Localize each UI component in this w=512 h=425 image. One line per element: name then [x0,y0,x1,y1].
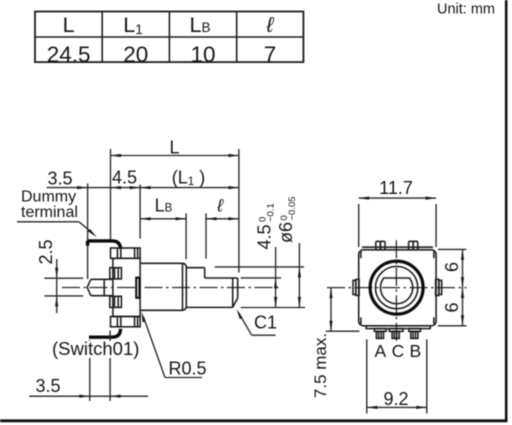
extension line dummy terminal edge [87,184,89,280]
page right border [505,0,508,422]
svg-text:LB: LB [155,196,173,216]
dimension 2.5 [44,259,83,313]
svg-text:3.5: 3.5 [35,376,60,396]
svg-text:LB: LB [190,13,211,37]
bold circle boss [370,261,423,314]
svg-text:(L1 ): (L1 ) [172,168,205,189]
svg-text:9.2: 9.2 [383,389,408,409]
dimension ell line [206,217,239,220]
body bottom terminal row [111,317,141,327]
svg-text:L: L [169,138,179,158]
dimension dia6 tol text [276,196,298,243]
svg-text:10: 10 [190,42,215,67]
right side tab [436,279,442,295]
front center line vertical [395,240,397,342]
bottom skirt [366,326,430,329]
dimension 6 6 right [438,249,467,325]
left side tab [353,279,359,295]
extension line shaft tip [238,149,240,273]
middle pin pointed [87,279,113,295]
svg-text:4.5: 4.5 [112,168,137,188]
svg-text:20: 20 [123,42,148,67]
dimension 3.5/4.5/(L1) line [47,186,239,189]
svg-text:Unit: mm: Unit: mm [437,2,495,18]
dimension 3.5 bottom [29,395,148,398]
body main outline [113,258,140,316]
svg-text:R0.5: R0.5 [169,359,207,379]
dimension 11.7 [359,197,436,248]
extension line shaft top right [215,266,304,268]
svg-text:7: 7 [264,42,277,67]
svg-text:L1: L1 [123,13,142,37]
svg-text:C: C [392,341,405,361]
switch terminal block bottom [110,296,122,307]
corner nub top-right [433,251,435,258]
dummy terminal label [17,189,97,238]
svg-text:ø6: ø6 [276,222,296,243]
bottom pin A [374,329,386,339]
front top seam [362,246,433,248]
svg-text:4.5: 4.5 [255,224,275,249]
svg-text:−0.1: −0.1 [266,203,277,222]
extension line body right [139,185,141,239]
dimension 7.5 max [326,288,360,332]
top pin left [376,241,385,250]
svg-text:7.5 max.: 7.5 max. [311,333,330,398]
svg-text:6: 6 [442,262,462,272]
top pin right [409,241,418,250]
svg-text:terminal: terminal [21,204,78,221]
shaft outline [186,268,237,308]
svg-text:11.7: 11.7 [379,178,413,198]
svg-text:C1: C1 [254,313,277,333]
corner nub bottom-right [433,317,435,324]
extension line shaft bottom right [241,307,305,309]
dummy terminal bold bracket top [87,241,120,249]
dimension 4.5 tol line [274,247,277,308]
svg-text:(Switch01): (Switch01) [52,338,139,359]
page bottom border [0,419,508,422]
shaft circle with flat [381,278,413,304]
svg-text:−0.05: −0.05 [287,196,298,220]
svg-text:L: L [63,13,75,37]
dimension dia6 tol line [298,243,301,308]
bushing circle [375,266,417,308]
extension line bushing end [185,213,187,259]
dimension L line [111,154,239,157]
extension lines bottom 3.5 [90,330,110,401]
front body outline [359,250,436,326]
bushing outline [141,263,186,310]
extension line flat start [205,213,207,258]
dimension LB line [140,217,186,220]
extension line flat right [241,277,281,279]
center line [62,287,279,289]
svg-text:2.5: 2.5 [36,239,56,264]
svg-text:24.5: 24.5 [47,42,91,67]
switch terminal bold bracket bottom [89,329,121,337]
body top terminal row [111,248,141,258]
bottom pin B [409,329,421,339]
svg-text:A: A [375,341,387,361]
dimension 9.2 [367,339,427,413]
svg-text:ℓ: ℓ [216,196,224,216]
extension line body left [110,149,112,240]
flange notch [136,278,139,298]
R0.5 label [142,312,207,379]
bottom pin C [389,329,403,339]
svg-text:B: B [409,341,421,361]
corner nub bottom-left [360,317,362,324]
svg-text:3.5: 3.5 [47,169,72,189]
svg-text:ℓ: ℓ [266,13,275,37]
svg-text:6: 6 [442,302,462,312]
switch terminal block top [110,268,122,279]
corner nub top-left [360,251,362,258]
svg-text:Dummy: Dummy [21,189,76,206]
dimension 4.5 tol text [255,203,277,249]
C1 label [237,309,277,335]
front center line horizontal [327,287,466,289]
table frame [35,12,303,63]
